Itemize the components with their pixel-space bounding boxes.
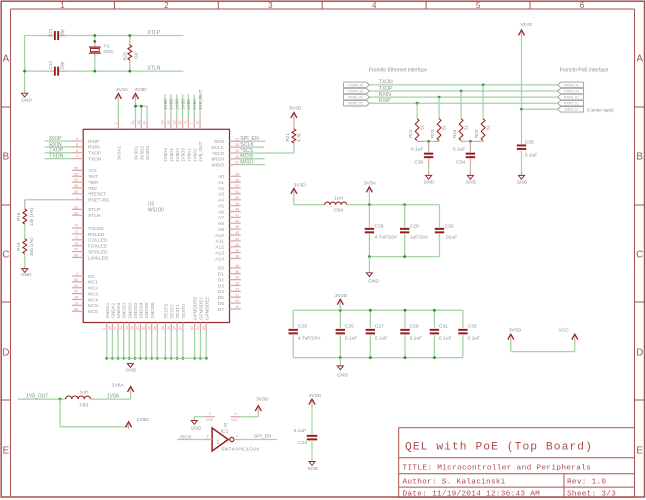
svg-text:8: 8 (76, 149, 78, 153)
svg-text:GPMODE2: GPMODE2 (204, 297, 209, 320)
svg-text:A10: A10 (215, 233, 224, 239)
svg-text:1V8D: 1V8D (137, 417, 150, 423)
svg-text:A13: A13 (215, 250, 224, 256)
svg-text:0.1uF: 0.1uF (525, 153, 538, 159)
svg-text:RXIP: RXIP (88, 139, 99, 145)
svg-text:51: 51 (235, 190, 239, 194)
svg-text:D5: D5 (218, 295, 225, 301)
svg-text:TXDN: TXDN (49, 154, 63, 160)
svg-text:29: 29 (235, 149, 239, 153)
svg-text:16: 16 (137, 121, 141, 125)
svg-text:*INT: *INT (88, 174, 98, 180)
svg-text:3V3A: 3V3A (116, 87, 129, 93)
svg-text:3V3A1: 3V3A1 (117, 146, 122, 160)
svg-text:1uF/16V: 1uF/16V (410, 235, 429, 241)
svg-text:Y1: Y1 (104, 44, 110, 50)
svg-text:14: 14 (125, 326, 129, 330)
svg-text:66: 66 (74, 254, 78, 258)
svg-text:1: 1 (60, 1, 65, 10)
svg-text:18p: 18p (59, 61, 64, 69)
svg-text:56: 56 (74, 172, 78, 176)
svg-text:7: 7 (190, 123, 194, 125)
svg-text:C24: C24 (298, 440, 307, 446)
svg-text:61: 61 (74, 284, 78, 288)
svg-text:3V3A: 3V3A (520, 21, 533, 27)
svg-text:NC2: NC2 (88, 286, 98, 292)
svg-text:65: 65 (202, 326, 206, 330)
svg-text:0.1uF: 0.1uF (411, 146, 424, 152)
svg-text:37: 37 (173, 326, 177, 330)
svg-text:R23: R23 (430, 129, 435, 138)
svg-text:1V8A2: 1V8A2 (192, 148, 197, 162)
svg-text:C: C (2, 249, 9, 260)
svg-text:0.1uF: 0.1uF (294, 428, 307, 434)
svg-text:GND: GND (206, 418, 214, 422)
svg-text:NC6: NC6 (88, 309, 98, 315)
svg-text:RXIP1 2C: RXIP1 2C (564, 102, 579, 106)
svg-text:1V8D4: 1V8D4 (163, 148, 168, 162)
svg-text:From/to PoE interface: From/to PoE interface (560, 68, 609, 74)
svg-text:46: 46 (235, 219, 239, 223)
svg-text:A4: A4 (218, 198, 224, 204)
svg-text:3V3D: 3V3D (509, 327, 522, 333)
svg-text:R25: R25 (474, 129, 479, 138)
svg-text:1V8_OUT: 1V8_OUT (26, 393, 48, 399)
svg-text:28: 28 (235, 155, 239, 159)
svg-text:43: 43 (147, 326, 151, 330)
svg-text:1uH: 1uH (80, 389, 89, 395)
svg-text:3V3D3: 3V3D3 (145, 146, 150, 160)
svg-text:TEST0: TEST0 (181, 304, 186, 319)
svg-text:GNDD1: GNDD1 (122, 302, 127, 319)
svg-text:C22: C22 (48, 61, 53, 70)
svg-text:0.1uF: 0.1uF (410, 335, 423, 341)
svg-text:4: 4 (236, 435, 238, 439)
svg-text:62: 62 (74, 290, 78, 294)
svg-text:RXLED: RXLED (88, 232, 105, 238)
svg-text:A2: A2 (218, 186, 224, 192)
svg-text:R24: R24 (452, 129, 457, 138)
svg-text:6: 6 (580, 1, 585, 10)
svg-text:27: 27 (235, 161, 239, 165)
svg-text:E: E (3, 445, 10, 456)
svg-text:B: B (636, 151, 643, 162)
svg-text:0.1uF: 0.1uF (453, 146, 466, 152)
svg-text:Sheet: 3/3: Sheet: 3/3 (567, 491, 616, 499)
svg-text:LINKLED: LINKLED (88, 255, 109, 261)
svg-text:21: 21 (235, 293, 239, 297)
svg-text:GND: GND (368, 278, 379, 284)
svg-text:13: 13 (119, 326, 123, 330)
svg-text:1V8D: 1V8D (175, 98, 180, 110)
svg-text:SPI_EN: SPI_EN (254, 434, 272, 440)
svg-text:5: 5 (235, 412, 237, 416)
svg-text:54: 54 (235, 172, 239, 176)
svg-text:1V8A: 1V8A (112, 383, 125, 389)
svg-text:C29: C29 (410, 323, 419, 329)
svg-text:66: 66 (153, 326, 157, 330)
svg-text:1V8D: 1V8D (169, 98, 174, 110)
svg-text:GNDD4: GNDD4 (139, 302, 144, 319)
svg-text:RXIN: RXIN (379, 92, 391, 98)
svg-text:*WR: *WR (88, 180, 99, 186)
svg-text:COLLED: COLLED (88, 238, 108, 244)
svg-text:50: 50 (74, 278, 78, 282)
svg-text:A5: A5 (218, 203, 224, 209)
svg-text:GND: GND (465, 180, 476, 186)
svg-text:2: 2 (114, 123, 118, 125)
svg-text:47: 47 (74, 248, 78, 252)
svg-text:OSC: OSC (104, 49, 115, 55)
svg-text:A9: A9 (218, 227, 224, 233)
svg-text:E: E (636, 445, 643, 456)
svg-text:63: 63 (190, 326, 194, 330)
svg-text:19: 19 (235, 305, 239, 309)
svg-text:35: 35 (235, 270, 239, 274)
svg-text:TXDN: TXDN (88, 156, 102, 162)
svg-text:GND: GND (517, 180, 528, 186)
svg-text:30: 30 (235, 143, 239, 147)
svg-text:18p: 18p (59, 29, 64, 37)
svg-text:SEN: SEN (214, 139, 225, 145)
svg-text:33: 33 (167, 121, 171, 125)
svg-text:GNDD3: GNDD3 (133, 302, 138, 319)
svg-text:A7: A7 (218, 215, 224, 221)
svg-text:Rev: 1.0: Rev: 1.0 (567, 478, 606, 486)
svg-text:R21: R21 (285, 133, 290, 142)
svg-text:XTLP: XTLP (148, 30, 161, 36)
svg-text:1V8A: 1V8A (192, 98, 197, 110)
svg-text:39: 39 (235, 249, 239, 253)
svg-text:9: 9 (76, 155, 78, 159)
svg-text:53: 53 (235, 178, 239, 182)
svg-text:10: 10 (108, 326, 112, 330)
svg-text:1V8_OUT: 1V8_OUT (198, 89, 203, 110)
svg-text:47: 47 (235, 213, 239, 217)
svg-text:NC5: NC5 (88, 303, 98, 309)
svg-text:D6: D6 (218, 301, 225, 307)
svg-text:48: 48 (235, 208, 239, 212)
svg-text:71: 71 (74, 236, 78, 240)
svg-text:3V3D1: 3V3D1 (134, 146, 139, 160)
svg-text:W5100: W5100 (148, 207, 164, 213)
svg-text:D: D (2, 347, 9, 358)
svg-text:D1: D1 (218, 272, 225, 278)
svg-text:RSET-BG: RSET-BG (88, 198, 110, 204)
svg-text:A3: A3 (218, 192, 224, 198)
svg-text:09: 09 (161, 121, 165, 125)
svg-text:TXOP1 2C: TXOP1 2C (348, 89, 365, 93)
svg-text:GNDA2: GNDA2 (111, 302, 116, 318)
svg-text:23: 23 (136, 326, 140, 330)
svg-text:0.1uF: 0.1uF (468, 335, 481, 341)
svg-text:GPMODE0: GPMODE0 (193, 297, 198, 320)
svg-text:MISO: MISO (212, 162, 225, 168)
svg-text:42: 42 (235, 231, 239, 235)
svg-text:36: 36 (235, 264, 239, 268)
svg-text:34: 34 (235, 276, 239, 280)
svg-text:IC1: IC1 (221, 428, 229, 434)
svg-text:C31: C31 (439, 323, 448, 329)
svg-text:*CS: *CS (88, 168, 97, 174)
svg-text:GNDD2: GNDD2 (127, 302, 132, 319)
svg-text:51: 51 (420, 124, 425, 130)
svg-text:3: 3 (268, 1, 273, 10)
svg-text:51: 51 (486, 124, 491, 130)
svg-text:R19: R19 (16, 242, 21, 251)
svg-text:MOSI: MOSI (212, 157, 225, 163)
svg-text:1uH: 1uH (334, 195, 343, 201)
svg-text:12: 12 (131, 121, 135, 125)
svg-text:GPMODE1: GPMODE1 (199, 297, 204, 320)
svg-text:1V8_OUT: 1V8_OUT (198, 141, 203, 162)
svg-text:D7: D7 (218, 307, 225, 313)
svg-text:*SCS: *SCS (212, 151, 225, 157)
svg-text:TEST2: TEST2 (169, 304, 174, 319)
svg-text:58: 58 (74, 184, 78, 188)
svg-text:TEST3: TEST3 (164, 304, 169, 319)
svg-text:79: 79 (74, 301, 78, 305)
svg-text:B: B (3, 151, 10, 162)
svg-text:36: 36 (167, 326, 171, 330)
svg-text:2: 2 (164, 1, 169, 10)
svg-text:GND: GND (337, 373, 348, 379)
svg-text:C25: C25 (345, 323, 354, 329)
svg-text:TXON1 2C: TXON1 2C (348, 83, 365, 87)
svg-text:FDXLED: FDXLED (88, 244, 108, 250)
svg-text:26: 26 (74, 205, 78, 209)
svg-text:NC3: NC3 (88, 291, 98, 297)
svg-text:20: 20 (235, 299, 239, 303)
svg-text:GND: GND (21, 98, 32, 104)
svg-text:XTLN: XTLN (88, 213, 101, 219)
svg-text:0.1uF: 0.1uF (345, 335, 358, 341)
svg-text:4: 4 (372, 1, 377, 10)
svg-text:FB4: FB4 (334, 208, 343, 214)
svg-text:50: 50 (235, 196, 239, 200)
svg-text:70: 70 (74, 242, 78, 246)
svg-text:From/to Ethernet interface: From/to Ethernet interface (369, 68, 427, 74)
svg-text:RXIN1 2C: RXIN1 2C (564, 96, 579, 100)
svg-text:3V3D: 3V3D (309, 393, 322, 399)
svg-text:300 (1%): 300 (1%) (29, 237, 34, 256)
svg-text:GNDA3: GNDA3 (116, 302, 121, 318)
svg-text:GNDA1: GNDA1 (105, 302, 110, 318)
svg-text:A: A (636, 53, 643, 64)
svg-text:*RESET: *RESET (88, 192, 106, 198)
svg-text:R22: R22 (408, 129, 413, 138)
svg-text:1V8D1: 1V8D1 (169, 148, 174, 162)
svg-text:A: A (3, 53, 10, 64)
svg-text:6: 6 (76, 143, 78, 147)
svg-text:*RD: *RD (88, 186, 97, 192)
svg-text:C33: C33 (468, 323, 477, 329)
svg-text:3V3D: 3V3D (335, 293, 348, 299)
svg-text:44: 44 (143, 121, 147, 125)
svg-text:C: C (636, 249, 643, 260)
svg-text:R20: R20 (122, 52, 127, 61)
svg-text:1V8A1: 1V8A1 (187, 148, 192, 162)
svg-text:C35: C35 (525, 139, 534, 145)
svg-text:5: 5 (76, 137, 78, 141)
svg-text:C27: C27 (375, 323, 384, 329)
svg-text:4.7uF/16V: 4.7uF/16V (375, 235, 398, 241)
svg-text:77: 77 (114, 326, 118, 330)
svg-text:4: 4 (102, 328, 106, 330)
svg-text:1V8D: 1V8D (180, 98, 185, 110)
svg-text:40: 40 (235, 243, 239, 247)
svg-text:51: 51 (442, 124, 447, 130)
svg-text:18: 18 (130, 326, 134, 330)
svg-text:RXIN: RXIN (88, 145, 100, 151)
svg-text:2Q: 2Q (224, 423, 228, 428)
svg-text:31: 31 (235, 137, 239, 141)
svg-text:4.7uF/16V: 4.7uF/16V (298, 335, 321, 341)
svg-text:C21: C21 (48, 28, 53, 37)
svg-text:78: 78 (74, 296, 78, 300)
svg-text:C34: C34 (456, 159, 465, 165)
svg-text:52: 52 (235, 184, 239, 188)
svg-text:TXON1 2C: TXON1 2C (563, 83, 580, 87)
svg-text:13: 13 (172, 121, 176, 125)
svg-text:A8: A8 (218, 221, 224, 227)
svg-text:VCC: VCC (559, 327, 570, 333)
svg-text:11: 11 (196, 121, 200, 125)
svg-text:3: 3 (76, 272, 78, 276)
svg-text:RXIN1 2C: RXIN1 2C (348, 96, 363, 100)
svg-text:D4: D4 (218, 289, 225, 295)
svg-text:64: 64 (196, 326, 200, 330)
svg-text:NC4: NC4 (88, 297, 98, 303)
svg-text:GND: GND (424, 180, 435, 186)
svg-text:GNDD6: GNDD6 (150, 302, 155, 319)
svg-text:49: 49 (235, 202, 239, 206)
svg-text:4.7k: 4.7k (296, 133, 301, 142)
svg-text:GND: GND (308, 466, 319, 472)
svg-text:GNDD5: GNDD5 (144, 302, 149, 319)
svg-text:MISO: MISO (240, 160, 253, 166)
svg-text:TXOP1 2C: TXOP1 2C (563, 89, 580, 93)
svg-text:XTLN: XTLN (148, 65, 161, 71)
svg-text:32: 32 (142, 326, 146, 330)
svg-text:51: 51 (464, 124, 469, 130)
svg-text:72: 72 (74, 230, 78, 234)
svg-text:RXIP: RXIP (379, 98, 391, 104)
svg-text:TITLE: Microcontroller and Pe: TITLE: Microcontroller and Peripherals (403, 464, 592, 472)
svg-text:1M: 1M (134, 53, 139, 60)
svg-text:2: 2 (207, 435, 209, 439)
svg-text:3V3D2: 3V3D2 (139, 146, 144, 160)
svg-text:1V8D2: 1V8D2 (175, 148, 180, 162)
svg-text:NC1: NC1 (88, 280, 98, 286)
svg-text:D3: D3 (218, 283, 225, 289)
svg-text:25: 25 (74, 211, 78, 215)
svg-text:GND: GND (21, 272, 32, 278)
svg-text:3V3D: 3V3D (256, 397, 269, 403)
svg-text:59: 59 (74, 190, 78, 194)
svg-text:SGN1 2C: SGN1 2C (564, 108, 579, 112)
svg-text:R18: R18 (16, 212, 21, 221)
svg-text:.01uF: .01uF (445, 235, 458, 241)
svg-text:1V8A: 1V8A (107, 393, 120, 399)
svg-text:0.1uF: 0.1uF (439, 335, 452, 341)
svg-text:1V8D3: 1V8D3 (181, 148, 186, 162)
svg-text:A12: A12 (215, 245, 224, 251)
svg-text:C28: C28 (410, 223, 419, 229)
svg-text:QEL with PoE (Top Board): QEL with PoE (Top Board) (405, 442, 593, 454)
svg-text:/SCS: /SCS (180, 435, 192, 441)
svg-text:D2: D2 (218, 277, 225, 283)
svg-text:A0: A0 (218, 174, 224, 180)
svg-text:Author: S. Kalacinski: Author: S. Kalacinski (403, 478, 506, 486)
svg-text:57: 57 (178, 326, 182, 330)
svg-text:Date: 11/19/2014 12:36:43 AM: Date: 11/19/2014 12:36:43 AM (403, 491, 541, 499)
svg-text:XTLP: XTLP (88, 207, 100, 213)
svg-text:3V3D: 3V3D (294, 183, 307, 189)
svg-text:74: 74 (184, 121, 188, 125)
svg-text:A11: A11 (216, 239, 225, 245)
svg-text:1V8A: 1V8A (186, 98, 191, 110)
svg-text:15: 15 (178, 121, 182, 125)
svg-text:1: 1 (76, 196, 78, 200)
svg-text:GND: GND (126, 368, 137, 374)
svg-text:A1: A1 (218, 180, 224, 186)
svg-text:SCLK: SCLK (211, 145, 225, 151)
svg-text:41: 41 (235, 237, 239, 241)
svg-text:38: 38 (235, 255, 239, 259)
svg-text:SPDLED: SPDLED (88, 249, 108, 255)
svg-text:RXIP1 2C: RXIP1 2C (348, 102, 363, 106)
svg-text:22: 22 (235, 287, 239, 291)
svg-text:TEST1: TEST1 (175, 304, 180, 319)
svg-text:1V8D: 1V8D (163, 98, 168, 110)
svg-text:3V3A: 3V3A (364, 180, 377, 186)
svg-text:3: 3 (209, 412, 211, 416)
svg-text:3V3D: 3V3D (134, 87, 147, 93)
svg-text:C30: C30 (414, 159, 423, 165)
svg-text:SN74AHC1G04: SN74AHC1G04 (221, 447, 259, 453)
svg-text:VCC: VCC (231, 418, 238, 422)
svg-text:FB3: FB3 (80, 403, 89, 409)
svg-text:57: 57 (74, 178, 78, 182)
svg-text:12k (1%): 12k (1%) (29, 207, 34, 226)
svg-text:0.1uF: 0.1uF (375, 335, 388, 341)
svg-text:45: 45 (235, 225, 239, 229)
svg-text:D: D (636, 347, 643, 358)
svg-text:TXOP: TXOP (88, 151, 101, 157)
svg-text:C23: C23 (298, 323, 307, 329)
svg-text:33: 33 (235, 282, 239, 286)
svg-text:55: 55 (74, 167, 78, 171)
svg-text:GND: GND (191, 425, 202, 431)
svg-text:TXLED: TXLED (88, 226, 104, 232)
svg-text:A6: A6 (218, 209, 224, 215)
svg-text:1: 1 (217, 440, 220, 446)
svg-text:NC: NC (88, 274, 96, 280)
svg-text:TXON: TXON (379, 80, 393, 86)
svg-text:A14: A14 (215, 256, 224, 262)
svg-text:35: 35 (161, 326, 165, 330)
svg-text:(Center taps): (Center taps) (587, 107, 614, 112)
svg-text:3V3D: 3V3D (289, 106, 302, 112)
svg-text:C26: C26 (375, 223, 384, 229)
svg-text:C32: C32 (445, 223, 454, 229)
svg-text:5: 5 (476, 1, 481, 10)
svg-text:73: 73 (74, 224, 78, 228)
svg-text:D0: D0 (218, 266, 225, 272)
svg-text:80: 80 (74, 307, 78, 311)
